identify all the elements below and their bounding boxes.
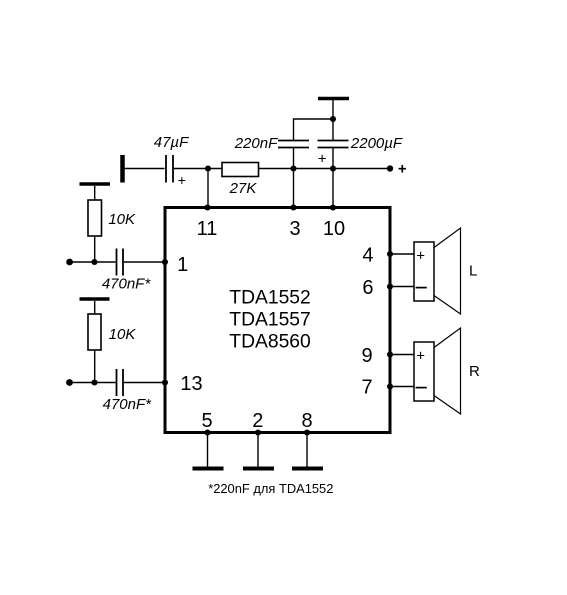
svg-text:10: 10 — [323, 218, 345, 240]
svg-text:*220nF для TDA1552: *220nF для TDA1552 — [208, 481, 333, 496]
svg-text:1: 1 — [177, 254, 188, 276]
svg-text:+: + — [416, 248, 425, 265]
svg-text:3: 3 — [289, 218, 300, 240]
svg-text:L: L — [469, 263, 477, 280]
svg-text:470nF*: 470nF* — [102, 276, 152, 293]
svg-text:TDA8560: TDA8560 — [229, 332, 310, 353]
svg-text:2: 2 — [252, 410, 263, 432]
svg-text:9: 9 — [361, 345, 372, 367]
svg-text:470nF*: 470nF* — [103, 396, 153, 413]
svg-text:+: + — [178, 172, 186, 188]
svg-text:7: 7 — [361, 377, 372, 399]
svg-text:5: 5 — [201, 410, 212, 432]
svg-text:6: 6 — [362, 277, 373, 299]
svg-text:8: 8 — [301, 410, 312, 432]
svg-text:R: R — [469, 363, 480, 380]
svg-text:2200µF: 2200µF — [350, 135, 403, 152]
svg-text:+: + — [398, 161, 407, 178]
svg-text:TDA1557: TDA1557 — [229, 310, 310, 331]
svg-text:11: 11 — [197, 218, 218, 240]
svg-text:+: + — [318, 151, 327, 168]
svg-text:13: 13 — [180, 373, 202, 395]
svg-text:220nF: 220nF — [234, 135, 278, 152]
svg-text:10K: 10K — [109, 326, 137, 343]
svg-text:10K: 10K — [108, 211, 136, 228]
svg-text:+: + — [416, 348, 425, 365]
svg-text:27K: 27K — [229, 180, 258, 197]
svg-text:47µF: 47µF — [154, 134, 189, 151]
svg-text:TDA1552: TDA1552 — [229, 288, 310, 309]
svg-text:4: 4 — [362, 245, 373, 267]
